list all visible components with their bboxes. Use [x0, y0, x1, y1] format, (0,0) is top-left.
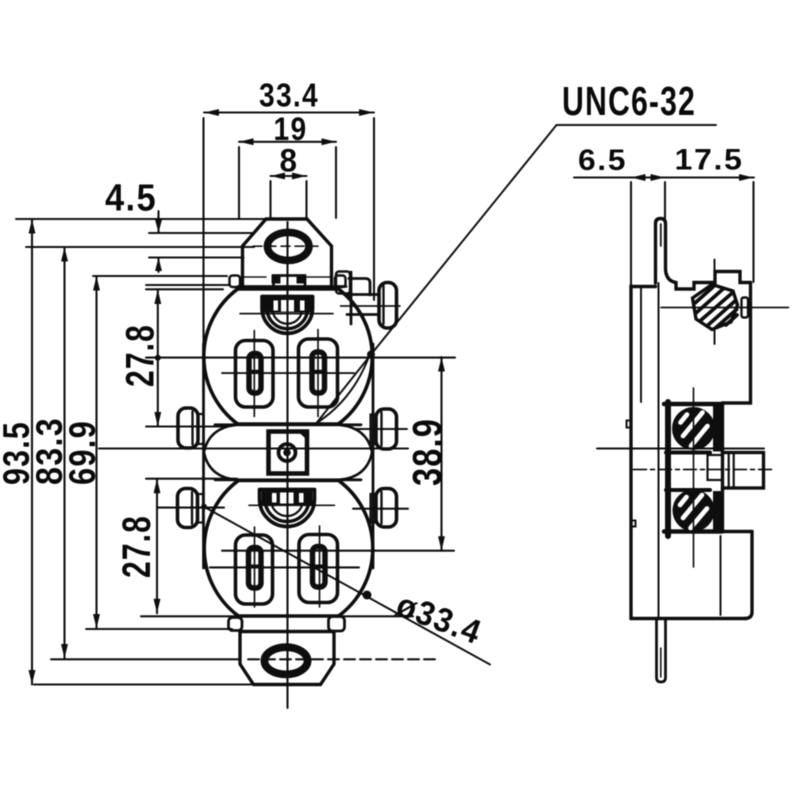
arrow 38.9 top: [438, 357, 445, 372]
bent tab: [656, 219, 677, 284]
inner line lower: [720, 536, 722, 615]
UNC6-32 underline: [557, 124, 717, 126]
lower ground inner bowl: [265, 493, 309, 522]
center screw corner chamfer: [301, 432, 307, 438]
terminal recess right edge upper: [721, 403, 724, 453]
dim line 38.9: [440, 357, 442, 551]
side screw right top centerline: [341, 305, 401, 307]
svg-text:33.4: 33.4: [259, 77, 319, 114]
lower left slot inner: [249, 548, 262, 589]
svg-text:38.9: 38.9: [404, 418, 450, 486]
top oval hole ring: [267, 232, 309, 260]
upper left slot inner: [249, 354, 261, 394]
lower ground recess outer bowl: [260, 490, 315, 527]
svg-text:27.8: 27.8: [115, 515, 159, 578]
long mid centerline y448.5: [99, 447, 764, 449]
pentagon verticals: [714, 260, 716, 345]
upper face outline (flattened circle): [204, 289, 372, 424]
screw axis centerline: [661, 307, 789, 309]
side screw right top hook bar: [349, 279, 370, 296]
arrow 8 left: [271, 173, 286, 180]
ext line y233: [149, 232, 254, 234]
upper right slot outer: [299, 339, 338, 407]
side screw right top head: [379, 283, 397, 329]
side screw left upper inner line: [191, 412, 193, 445]
dim line 19: [239, 141, 336, 143]
bent tab inner line: [660, 224, 662, 246]
phillips white slits lower: [680, 495, 707, 528]
extension lines 19: [239, 147, 336, 218]
upper ground dark band: [264, 297, 312, 313]
arrow 27.8l top: [154, 479, 161, 494]
extension lines 8: [271, 181, 307, 218]
svg-text:6.5: 6.5: [578, 144, 627, 177]
lower ground U arc: [271, 494, 303, 516]
arrow 69.9 top: [93, 276, 100, 291]
svg-text:8: 8: [280, 143, 299, 179]
ext line y478.7 lower face top: [146, 478, 237, 480]
upper slot vertical centerlines: [254, 330, 318, 417]
svg-text:UNC6-32: UNC6-32: [562, 78, 696, 124]
terminal plate thick edges: [665, 402, 671, 536]
arrow 27.8u bottom: [154, 412, 161, 427]
center break-off tab: [274, 276, 306, 287]
arrow 93.5 top: [29, 219, 36, 234]
upper left slot tick: [251, 370, 260, 374]
side screw left lower washer: [198, 494, 204, 523]
upper right slot tick: [314, 370, 324, 374]
svg-text:17.5: 17.5: [675, 144, 744, 177]
svg-text:69.9: 69.9: [62, 420, 103, 485]
ext line y357.6 face center: [146, 357, 455, 359]
arrow 38.9 bottom: [438, 536, 445, 551]
face plane line: [658, 283, 660, 618]
ext line y276: [93, 275, 227, 277]
dim line 93.5: [31, 219, 33, 685]
side screw right top inner line: [382, 286, 384, 324]
phillips white slits upper: [681, 413, 708, 447]
arrow 19 left: [239, 138, 254, 145]
screw vertical centerlines: [693, 388, 695, 567]
arrow 4.5 top: [155, 220, 162, 234]
lower left slot tick: [250, 565, 260, 569]
slot crosshair lower: [210, 566, 359, 568]
arrow 27.8u top: [154, 290, 161, 305]
side screw right upper head: [376, 409, 397, 449]
phillips screw upper: [674, 409, 713, 448]
arrow 6.5 left: [631, 174, 646, 181]
lower right slot inner: [313, 547, 326, 588]
waist fillets: [204, 425, 372, 480]
side screw left lower inner line: [191, 492, 193, 524]
strap tail inner line: [660, 648, 662, 677]
ext line y426.5 screws upper: [146, 425, 227, 427]
screw tip rect: [742, 298, 749, 318]
bottom edge: [631, 617, 745, 620]
arrow 83.3 bottom: [61, 644, 68, 659]
side screw left upper washer: [198, 414, 204, 444]
dark blocks right of screws: [713, 405, 723, 531]
upper slot lower crosshair: [222, 372, 354, 374]
strap tail: [657, 620, 666, 682]
upper ground U arc: [273, 301, 303, 324]
side screw right top clip: [336, 272, 350, 294]
tab end blocks: [272, 275, 306, 284]
ext line y550.7 38.9 bottom: [222, 550, 454, 552]
ext line y629 body bottom shoulder: [86, 628, 232, 630]
arrow 69.9 bottom: [93, 614, 100, 629]
arrow 4.5 bottom: [155, 258, 162, 272]
center screw square outer: [269, 432, 308, 474]
dim line 27.8 upper: [157, 290, 159, 427]
ear right small tab: [335, 276, 346, 288]
ear left small tab: [230, 276, 241, 288]
dim line 83.3: [63, 247, 65, 659]
body side lines: [204, 344, 374, 568]
side screw right lower head: [376, 489, 397, 528]
lower slot vertical centerlines: [255, 526, 320, 607]
strap top edge: [631, 285, 656, 288]
lug dash-dot centerline: [634, 469, 773, 471]
dim line 6.5 / 17.5: [574, 176, 754, 178]
lower face outline: [204, 481, 373, 617]
ext line y659.3 bottom oval center: [51, 658, 240, 660]
upper right slot inner: [312, 352, 325, 393]
dashes bottom oval center: [248, 658, 440, 660]
arrow 6.5 right: [651, 174, 666, 181]
upper left slot outer: [236, 341, 274, 408]
phillips screw lower: [675, 492, 713, 530]
upper ground crosshair: [240, 313, 333, 315]
junction dot leader end UNC: [367, 351, 375, 359]
extension lines 33.4: [204, 118, 375, 345]
lower right slot outer: [299, 535, 338, 603]
side screw right top bracket: [347, 272, 379, 324]
bottom left foot: [229, 618, 243, 631]
arrow 33.4 left: [204, 109, 219, 116]
dim line 8: [271, 175, 307, 177]
arrow 33.4 right: [359, 109, 374, 116]
extension lines 6.5 / 17.5: [631, 182, 754, 286]
side screw right upper inner line: [380, 413, 382, 446]
arrow 83.3 top: [61, 247, 68, 262]
strap edge notch: [627, 421, 632, 428]
dim line 4.5 segments: [157, 211, 159, 272]
arrow 27.8l bottom: [154, 599, 161, 614]
arrow 93.5 bottom: [29, 670, 36, 685]
ext line y257.5: [149, 256, 244, 258]
side screw right lower inner line: [380, 492, 382, 524]
upper ground recess outer bowl: [262, 297, 313, 334]
lower right slot tick: [314, 565, 324, 569]
dot at 27.8 line crossing: [155, 355, 161, 361]
lower ground crosshair: [249, 504, 335, 506]
pentagon hatch: [695, 287, 737, 328]
dot at dia leader start: [201, 504, 207, 510]
lower ground dark band: [262, 490, 313, 506]
svg-text:27.8: 27.8: [119, 324, 163, 387]
upper ground inner bowl: [267, 300, 308, 329]
ext line y289 face top: [146, 288, 223, 290]
lug inner bars: [729, 453, 734, 489]
svg-text:4.5: 4.5: [105, 178, 157, 220]
top mounting ear outline: [243, 219, 332, 287]
UNC6-32 leader: [317, 125, 557, 423]
main vertical centerline: [286, 222, 288, 708]
dia 33.4 leader: [204, 507, 491, 665]
wire clamp lug: [723, 453, 764, 489]
side screw right lower washer: [371, 494, 377, 523]
strap edge step tick: [631, 521, 636, 527]
center screw circle: [279, 444, 296, 461]
side screw left upper head: [178, 408, 198, 448]
arrow 17.5 right: [739, 174, 754, 181]
right edge lower: [745, 532, 752, 619]
right edge upper: [723, 283, 751, 404]
ext line y285: [146, 284, 229, 286]
pentagon screw head: [693, 285, 738, 330]
screw centerline right lower: [353, 508, 408, 510]
strap left edge: [629, 286, 632, 619]
lower left slot outer: [236, 535, 273, 604]
side screw right upper washer: [371, 415, 377, 445]
dim line 69.9: [95, 276, 97, 629]
screw centerline right upper: [356, 428, 407, 430]
terminal recess right edge lower: [723, 488, 753, 532]
top profile notch and boss: [676, 272, 751, 290]
arrow 8 right: [292, 173, 307, 180]
lug inner rect: [708, 455, 723, 480]
waist chords: [215, 425, 361, 480]
bottom right foot: [329, 617, 345, 632]
bottom oval ring: [264, 647, 307, 674]
side screw left lower head: [178, 489, 198, 528]
arrow 19 right: [322, 138, 337, 145]
ext line y616.3 lower face bottom: [141, 615, 413, 617]
dim line 27.8 lower: [156, 479, 158, 614]
dim line 33.4: [204, 111, 374, 113]
ext line y684.5 bottom of body: [34, 683, 251, 685]
strap inner edge: [640, 287, 642, 402]
ear inner shelf lines: [243, 276, 331, 278]
screw centerline left lower: [158, 507, 224, 509]
bottom mounting ear: [240, 632, 334, 685]
center screw dot: [283, 449, 291, 457]
top oval crosshair dashes: [253, 245, 322, 247]
ext line y219 top of body: [16, 218, 266, 220]
ext line y247 oval center left: [26, 246, 254, 248]
ear plate bottom line: [238, 285, 346, 288]
dot on dia leader at circle edge: [363, 591, 372, 600]
UNC6-32 leader curved sliver: [317, 352, 371, 423]
